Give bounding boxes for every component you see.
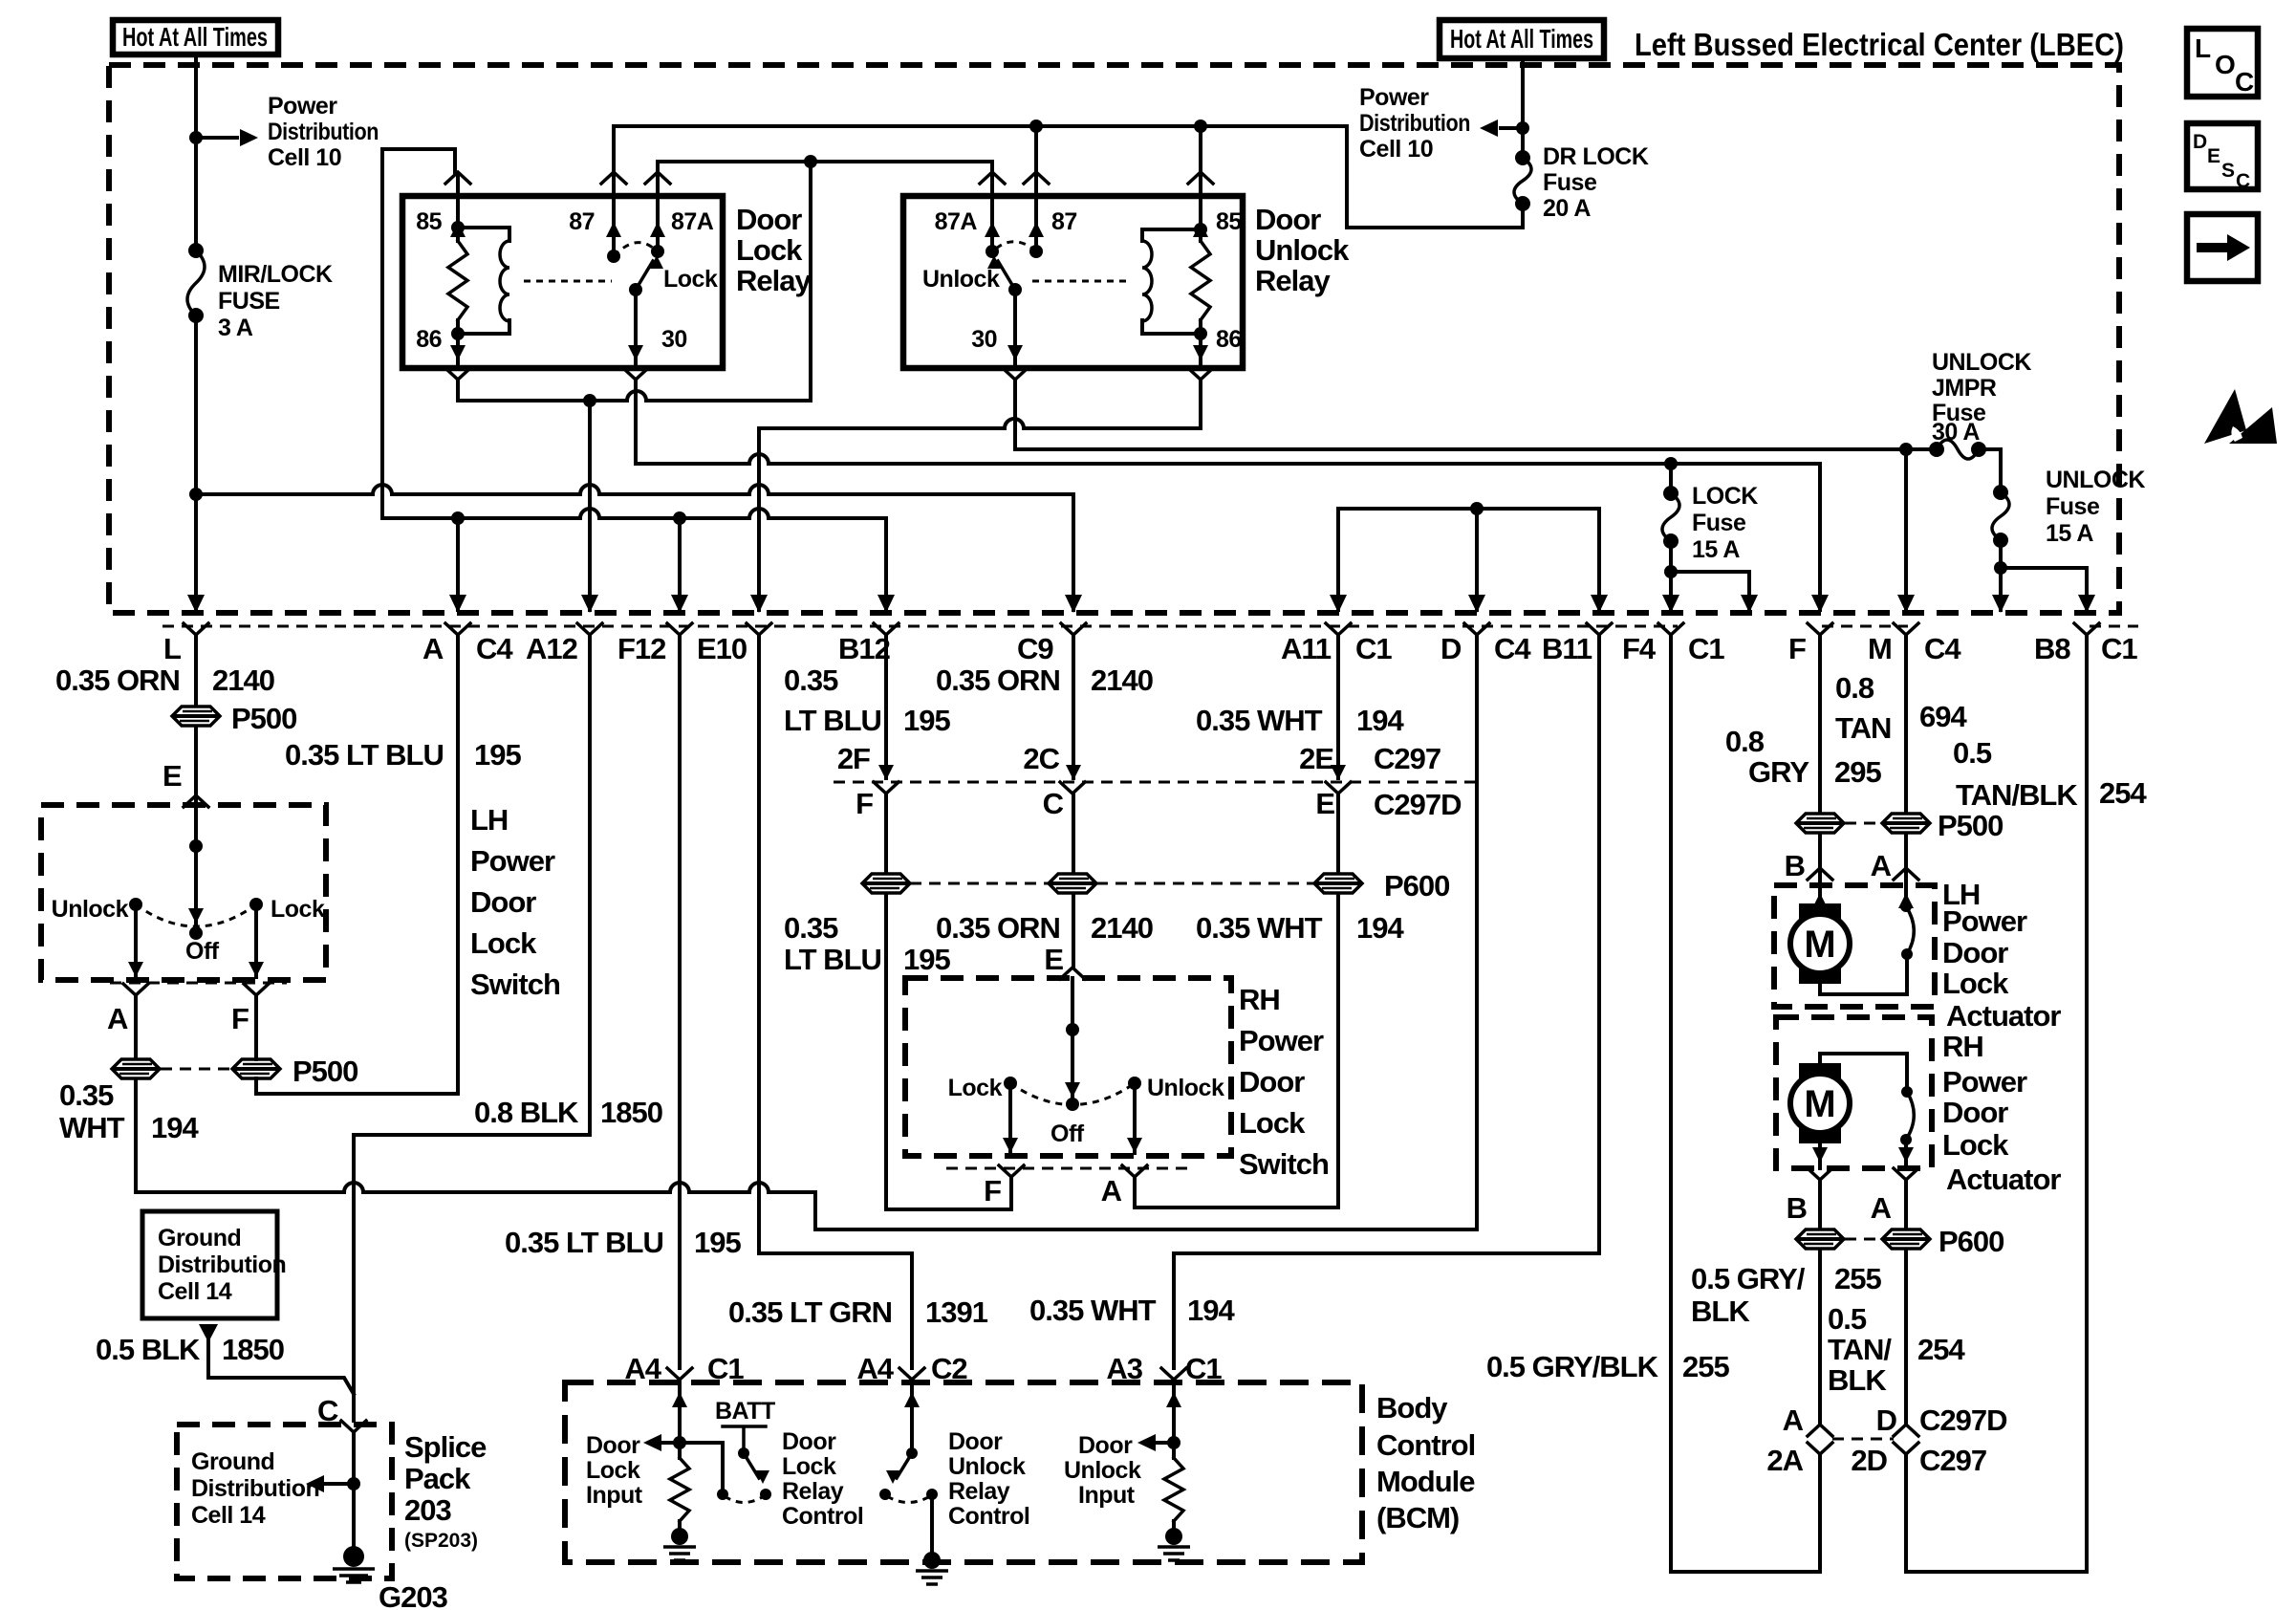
svg-text:C4: C4 [1924,632,1961,665]
svg-text:Relay: Relay [948,1478,1010,1505]
LH Power Door Lock Actuator dashed box [1774,885,1935,1007]
wire RH actuator pin B 0.5 GRY/BLK 255 to C297 2A [1818,1180,1822,1425]
coil unlock relay [1142,229,1201,334]
wire bus from unlock relay 30 to UNLOCK JMPR fuse and exits M B8 [1015,381,2087,610]
motor M LH actuator [1812,893,1828,908]
svg-text:20 A: 20 A [1543,195,1591,222]
svg-text:LOCK: LOCK [1692,483,1758,510]
svg-text:E: E [1315,787,1334,820]
position switch LH actuator [1898,893,1914,908]
svg-text:A: A [1783,1403,1804,1437]
svg-text:0.35: 0.35 [784,911,838,945]
svg-text:B8: B8 [2034,632,2070,665]
svg-text:Power: Power [470,844,555,878]
svg-text:195: 195 [903,943,950,976]
svg-text:Cell 14: Cell 14 [191,1502,266,1529]
wire RH actuator pins down [1818,1143,1822,1168]
svg-text:194: 194 [1187,1294,1235,1327]
svg-text:F: F [856,787,873,820]
svg-text:Lock: Lock [1942,967,2009,1000]
svg-text:0.35: 0.35 [784,664,838,697]
svg-text:2D: 2D [1851,1444,1887,1477]
pin 85 unlock relay [1188,172,1213,184]
svg-text:2140: 2140 [1091,911,1153,945]
svg-text:0.35: 0.35 [59,1078,114,1112]
svg-text:LH: LH [470,803,508,837]
arrow from Ground Distribution box [199,1324,218,1342]
fuse MIR/LOCK FUSE 3 A [188,243,204,258]
wire exit E10 0.35 LT GRN 1391 to BCM Door Unlock Relay Control [759,635,912,1368]
svg-text:86: 86 [416,326,442,353]
svg-text:LT BLU: LT BLU [784,704,881,737]
svg-text:Door: Door [1255,203,1321,236]
Ground Distribution Cell 14 box [142,1211,277,1318]
svg-text:0.35 WHT: 0.35 WHT [1196,704,1323,737]
junction dot exit M [1899,443,1913,456]
svg-text:WHT: WHT [59,1111,125,1144]
svg-text:P500: P500 [292,1055,357,1088]
LH Power Door Lock Switch dashed box [41,805,326,980]
svg-text:194: 194 [1356,911,1404,945]
off contact dot RH [1066,1098,1079,1111]
RH Power Door Lock Actuator dashed box [1776,1017,1932,1168]
wire Unlock contact to pin A RH [1133,1083,1137,1153]
svg-text:Lock: Lock [736,233,803,267]
svg-text:A12: A12 [526,632,577,665]
svg-text:0.35 ORN: 0.35 ORN [936,911,1060,945]
svg-text:0.5: 0.5 [1953,736,1992,770]
BCM pin A3 C1 Door Unlock Input [1172,1380,1176,1458]
svg-text:A: A [1101,1174,1122,1207]
ground BCM door lock input [671,1528,688,1545]
LOC icon box [2187,29,2258,97]
svg-text:P600: P600 [1939,1225,2004,1258]
svg-text:Switch: Switch [470,968,560,1001]
connector row thin dashed line [162,625,2138,628]
resistor lock relay [456,228,460,334]
svg-text:0.35 LT BLU: 0.35 LT BLU [505,1226,663,1259]
svg-text:C: C [1043,787,1064,820]
svg-text:Door: Door [1078,1432,1133,1459]
wire Lock contact to pin F [254,904,258,977]
dashed throw arc RH switch [1010,1083,1135,1105]
svg-text:295: 295 [1834,755,1881,789]
wire Lock contact to pin F RH [1008,1083,1012,1153]
svg-text:C: C [2236,170,2250,192]
connector C297 to C297D thin dashed line [834,781,1484,784]
svg-text:Door: Door [736,203,802,236]
junction dot to Power Distribution [189,131,203,144]
wire exit B8 C1 0.5 TAN/BLK 254 to C297 2D [1906,635,2087,1572]
wire lock relay coil feed to bus [382,149,455,518]
svg-text:3 A: 3 A [218,315,253,341]
svg-text:F: F [984,1174,1001,1207]
svg-text:Lock: Lock [948,1075,1003,1101]
svg-text:0.5: 0.5 [1828,1302,1867,1336]
svg-text:G203: G203 [379,1580,448,1610]
contact dot Unlock RH [1128,1077,1141,1090]
svg-text:0.8: 0.8 [1725,725,1765,758]
svg-text:L: L [2195,33,2211,63]
svg-text:Unlock: Unlock [1255,233,1350,267]
svg-text:Lock: Lock [782,1453,836,1480]
wire pin F P500 down and right to LBEC exit A (0.35 LT BLU 195) [256,635,458,1094]
svg-text:C1: C1 [1688,632,1724,665]
svg-text:C1: C1 [2101,632,2137,665]
wire exit F12 0.35 LT BLU 195 to BCM Door Lock Input [678,635,682,1368]
Splice Pack 203 dashed box [177,1425,392,1578]
svg-text:UNLOCK: UNLOCK [2046,467,2145,493]
wire exit A11 0.35 WHT 194 to RH switch pin A [1135,635,1338,1207]
wire exit B12 0.35 LT BLU 195 to RH switch pin F [886,635,1011,1209]
relay box Door Lock Relay [402,196,723,368]
ground G203 [343,1546,364,1567]
svg-text:Ground: Ground [158,1225,241,1251]
BCM pin A4 C1 Door Lock Input [678,1380,682,1458]
svg-text:195: 195 [903,704,950,737]
wire RH actuator motor to switch [1820,1054,1907,1092]
svg-text:JMPR: JMPR [1932,375,1997,402]
svg-text:Door: Door [1239,1065,1305,1099]
pin 30 lock relay [634,290,638,366]
svg-text:C297D: C297D [1374,788,1462,821]
wire BCM Door Unlock Input 0.35 WHT 194 to exit C4 B11 [1174,635,1599,1368]
svg-text:E10: E10 [697,632,747,665]
svg-text:Distribution: Distribution [158,1251,286,1278]
svg-text:Relay: Relay [782,1478,844,1505]
connector P600 row [862,874,910,893]
wire drop to exit E10 [757,428,761,610]
svg-text:Lock: Lock [470,926,537,960]
svg-text:M: M [1804,1083,1835,1125]
svg-text:195: 195 [474,738,521,772]
wire bus from lock relay 30 through LOCK fuse to exit F [636,381,1820,610]
svg-text:Distribution: Distribution [1359,110,1470,137]
junction dot unlock coil bottom [1194,327,1207,340]
svg-text:2140: 2140 [1091,664,1153,697]
pin 87A lock relay [645,172,670,184]
svg-text:P600: P600 [1384,869,1449,903]
svg-text:Unlock: Unlock [1147,1075,1224,1101]
wire stub arrow at border from LOCK fuse [1671,572,1749,610]
svg-text:0.35 LT GRN: 0.35 LT GRN [728,1295,892,1329]
svg-text:BLK: BLK [1691,1295,1750,1328]
svg-text:Power: Power [1359,84,1429,111]
svg-text:85: 85 [416,208,442,235]
svg-text:0.35 LT BLU: 0.35 LT BLU [285,738,444,772]
dashed link P500 pair [161,1068,231,1071]
svg-text:Hot At All Times: Hot At All Times [122,22,268,52]
ESD caution symbol [2204,389,2246,444]
svg-text:RH: RH [1942,1030,1983,1063]
wire LOCK fuse drop to exit F4 [1669,464,1673,610]
svg-text:Power: Power [1942,1065,2027,1099]
junction dot splice [347,1477,360,1490]
svg-text:Fuse: Fuse [1543,169,1597,196]
connector P500 right pair [1796,814,1844,833]
wire exit F 0.8 GRY 295 to LH actuator pin B [1818,635,1822,903]
dashed throw arc lock relay [614,243,654,256]
svg-text:E: E [1044,943,1063,976]
svg-text:A: A [1871,1191,1892,1225]
junction dot exit D [1470,502,1484,515]
svg-text:BLK: BLK [1828,1363,1887,1397]
svg-text:Lock: Lock [586,1457,640,1484]
dashed throw arc LH switch [136,904,256,926]
svg-text:A: A [422,632,444,665]
svg-text:TAN: TAN [1835,711,1891,745]
svg-text:B: B [1787,1191,1807,1225]
svg-text:30: 30 [971,326,997,353]
svg-text:DR LOCK: DR LOCK [1543,143,1649,170]
thin dashed connector line under RH switch [946,1167,1195,1170]
connector C297D to C297 right pins [1808,1425,1832,1436]
svg-text:87A: 87A [671,208,714,235]
svg-text:254: 254 [2099,776,2147,810]
svg-text:Unlock: Unlock [948,1453,1026,1480]
svg-text:M: M [1868,632,1892,665]
svg-text:Left Bussed Electrical Center: Left Bussed Electrical Center (LBEC) [1635,27,2124,62]
arrow to Ground Distribution Cell 14 (internal) [325,1482,354,1486]
switch arm lock relay [636,261,653,290]
svg-text:Splice: Splice [404,1430,487,1464]
svg-text:A: A [1871,849,1892,882]
motor M RH actuator [1799,1063,1841,1143]
resistor unlock relay [1199,229,1202,334]
svg-text:85: 85 [1216,208,1242,235]
pin 87 unlock relay [1024,172,1049,184]
svg-text:87A: 87A [935,208,978,235]
svg-text:B: B [1785,849,1805,882]
svg-text:Unlock: Unlock [52,896,129,923]
svg-text:S: S [2221,160,2235,182]
wire exit C9 0.35 ORN 2140 to RH switch pin E [1072,635,1075,968]
svg-text:0.35 ORN: 0.35 ORN [936,664,1060,697]
pin 85 lock relay [445,172,470,184]
wire stub arrow at border below UNLOCK fuse [1999,568,2003,610]
svg-text:UNLOCK: UNLOCK [1932,349,2031,376]
svg-text:BATT: BATT [715,1398,775,1425]
svg-text:Relay: Relay [736,264,812,297]
pin 87A unlock relay [980,172,1005,184]
connector P500 pin A [112,1059,160,1078]
resistor BCM door lock input [670,1458,689,1521]
svg-text:30: 30 [661,326,687,353]
svg-text:Fuse: Fuse [2046,493,2100,520]
wire splice pack internal [352,1432,356,1556]
svg-text:Module: Module [1376,1465,1475,1498]
Hot At All Times box (right) [1440,20,1604,58]
pin 86 unlock relay [1199,334,1202,366]
wire orange bus 2140 from L wire to exit C9 [196,485,1073,610]
svg-text:194: 194 [151,1111,199,1144]
svg-text:(SP203): (SP203) [404,1530,478,1552]
junction dot LOCK fuse tap [1664,457,1678,470]
svg-text:Fuse: Fuse [1692,510,1746,536]
svg-text:254: 254 [1917,1333,1965,1366]
svg-text:TAN/: TAN/ [1828,1333,1892,1366]
svg-text:Actuator: Actuator [1946,999,2061,1033]
junction dot unlock 85 riser [1194,120,1207,133]
svg-text:0.35 WHT: 0.35 WHT [1196,911,1323,945]
svg-text:C297D: C297D [1919,1403,2007,1437]
svg-text:C9: C9 [1017,632,1053,665]
wire switch common LH [194,795,198,933]
wire 87A link bus [658,162,992,174]
svg-text:Power: Power [1239,1024,1324,1057]
svg-text:Lock: Lock [663,266,718,293]
svg-text:LT BLU: LT BLU [784,943,881,976]
svg-text:D: D [2193,131,2207,153]
wire bus 195 (lt blu net) to exits A F12 B12 [382,509,886,610]
dashed actuation link unlock relay [1032,280,1128,283]
wire pin A to P500 and 0.35 WHT 194 run [134,995,138,1192]
svg-text:Door: Door [586,1432,640,1459]
junction dot below UNLOCK fuse [1994,561,2007,575]
svg-text:GRY: GRY [1748,755,1809,789]
wire drop to exit A12 (0.8 BLK 1850 net) [588,401,592,610]
fuse DR LOCK Fuse 20 A [1515,150,1530,165]
connector P500 pin L to E [172,707,220,726]
fuse UNLOCK JMPR Fuse 30 A [1929,442,1944,457]
svg-text:Control: Control [1376,1428,1475,1462]
wire bus 194 tying exits A11 D B11 [1338,509,1599,610]
svg-text:Control: Control [948,1503,1029,1530]
svg-text:0.5 BLK: 0.5 BLK [96,1333,201,1366]
svg-text:2140: 2140 [212,664,274,697]
Hot At All Times box (left) [113,20,278,54]
off contact dot LH [189,926,203,940]
svg-text:Lock: Lock [271,896,325,923]
junction dot DR LOCK [1516,121,1529,135]
svg-text:B12: B12 [838,632,890,665]
junction dot exit F12 [673,511,686,525]
svg-text:C297: C297 [1919,1444,1986,1477]
svg-text:195: 195 [694,1226,741,1259]
svg-text:30 A: 30 A [1932,419,1980,446]
svg-text:C: C [2235,67,2254,97]
svg-text:694: 694 [1919,700,1967,733]
svg-text:C1: C1 [1355,632,1392,665]
wire top bus lock87-unlock87-unlock85 to DR LOCK fuse [614,126,1523,228]
switch arm unlock relay [998,261,1015,290]
svg-text:1850: 1850 [600,1096,662,1129]
arrow to Power Distribution Cell 10 [196,136,237,140]
wire 0.8 BLK 1850 from exit A12 to splice pack [354,635,590,1421]
wire from right Hot At All Times box through DR LOCK fuse [1521,58,1525,158]
svg-text:2A: 2A [1766,1444,1803,1477]
svg-text:Power: Power [1942,904,2027,938]
svg-text:F12: F12 [617,632,665,665]
svg-text:Power: Power [268,93,337,120]
svg-text:Actuator: Actuator [1946,1163,2061,1196]
svg-text:Hot At All Times: Hot At All Times [1450,24,1593,54]
svg-text:255: 255 [1682,1350,1729,1383]
junction dot coil top [451,221,465,234]
svg-text:Lock: Lock [1942,1128,2009,1162]
arrow icon box [2187,214,2258,281]
svg-text:0.5 GRY/: 0.5 GRY/ [1691,1262,1806,1295]
svg-text:0.8 BLK: 0.8 BLK [474,1096,579,1129]
wire unlock relay control to ground [930,1494,934,1551]
wire exit F4 C1 0.5 GRY/BLK 255 to C297 2A [1671,635,1820,1572]
wire RH actuator pin A 0.5 TAN/BLK 254 to C297 2D [1904,1180,1908,1425]
svg-text:Door: Door [1942,936,2008,969]
wire unlock relay 85 riser [1199,126,1202,174]
connector row labels and chevrons [184,623,208,635]
position switch RH actuator [1901,1086,1913,1098]
wire 0.35 WHT 194 from LH switch pin A to LBEC exit D [136,635,1477,1229]
wire drop to exit A [456,518,460,610]
wire bus from unlock relay 86 to exit E10 [757,426,761,430]
svg-text:Cell 14: Cell 14 [158,1278,232,1305]
wire LH actuator motor to switch [1820,954,1907,994]
DESC icon box [2187,123,2258,189]
wire exit M 0.8 TAN 694 to LH actuator pin A [1904,635,1908,906]
svg-text:Switch: Switch [1239,1147,1329,1181]
svg-text:D: D [1440,632,1462,665]
svg-text:C4: C4 [476,632,513,665]
svg-text:Unlock: Unlock [1064,1457,1141,1484]
wire 0.35 ORN 2140 from exit L to LH switch [194,635,198,795]
svg-text:C297: C297 [1374,742,1440,775]
junction dot unlock 87 riser [1029,120,1043,133]
svg-text:0.5 GRY/BLK: 0.5 GRY/BLK [1486,1350,1659,1383]
wire drop to exit M [1904,449,1908,610]
svg-text:F: F [1788,632,1806,665]
svg-text:P500: P500 [231,702,296,735]
connector P600 right pair [1796,1229,1844,1249]
ground BCM door unlock input [1165,1528,1182,1545]
junction dot exit A [451,511,465,525]
ground BCM unlock relay control [923,1552,941,1569]
svg-text:Lock: Lock [1239,1106,1306,1140]
junction dot unlock coil top [1194,223,1207,236]
pin 86 lock relay [456,334,460,366]
svg-text:M: M [1804,924,1835,966]
LBEC dashed border box [109,65,2119,613]
svg-text:MIR/LOCK: MIR/LOCK [218,261,333,288]
svg-text:Control: Control [782,1503,863,1530]
Body Control Module dashed box [565,1382,1362,1562]
wire unlock relay 87 riser [1034,126,1038,174]
svg-text:203: 203 [404,1493,451,1527]
dashed throw arc unlock relay [996,242,1036,251]
svg-text:D: D [1876,1403,1897,1437]
thin dashed connector line under LH switch [110,982,287,985]
svg-text:15 A: 15 A [2046,520,2093,547]
junction dot below LOCK fuse [1664,565,1678,578]
junction dot 87A riser [804,155,817,168]
svg-text:RH: RH [1239,983,1280,1016]
svg-text:Input: Input [586,1482,643,1509]
svg-text:E: E [162,759,182,793]
svg-text:P500: P500 [1938,809,2003,842]
junction dot exit C4 A12 [583,394,596,407]
svg-text:0.8: 0.8 [1835,671,1874,705]
wire 0.5 BLK 1850 to splice junction [208,1338,354,1394]
svg-text:Unlock: Unlock [922,266,1000,293]
wire drop to exit F12 [678,518,682,610]
pin 87 lock relay [601,172,626,184]
svg-text:Door: Door [470,885,536,919]
relay box Door Unlock Relay [903,196,1243,368]
junction dot coil bottom [451,327,465,340]
svg-text:1391: 1391 [925,1295,988,1329]
svg-text:15 A: 15 A [1692,536,1740,563]
RH Power Door Lock Switch dashed box [905,978,1231,1156]
fuse LOCK Fuse 15 A [1663,486,1679,501]
